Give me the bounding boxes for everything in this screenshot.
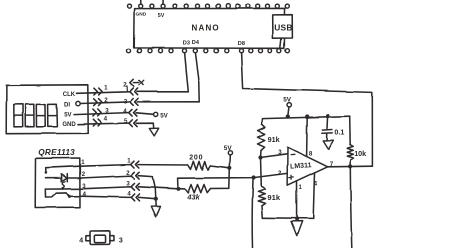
- wire output down off-page: [350, 166, 352, 248]
- 4-digit 7-segment display module box: [6, 85, 88, 134]
- QRE1113 box: [35, 158, 80, 208]
- wire GND pin up off-page: [140, 0, 142, 4]
- svg-text:10k: 10k: [354, 149, 366, 158]
- wire row1 to R 200: [138, 164, 188, 166]
- LM311 triangle U1: [287, 147, 328, 186]
- light arrow head: [62, 187, 65, 190]
- svg-text:4: 4: [314, 180, 318, 187]
- capacitor C1 0.1 top lead: [327, 116, 330, 128]
- connector plug pin3 chevrons: [93, 109, 96, 116]
- wire collector node to LM311 + input: [178, 173, 287, 188]
- svg-text:5V: 5V: [158, 13, 165, 19]
- junction dot collector node: [176, 187, 180, 191]
- socket chevrons row3: [131, 183, 134, 190]
- junction dot 10k/output: [348, 164, 352, 168]
- resistor R5 10k: [349, 116, 352, 144]
- capacitor bottom lead: [326, 133, 328, 140]
- display digit 2: [25, 104, 34, 127]
- junction dot row4/gnd: [154, 197, 158, 201]
- pin 4 emitter wire: [69, 195, 79, 197]
- ground symbol (sensor): [151, 206, 160, 217]
- svg-text:5V: 5V: [224, 145, 233, 152]
- socket chevrons CLK row: [130, 88, 133, 95]
- rail junction dots: [286, 114, 290, 118]
- socket chevrons GND row: [129, 120, 132, 127]
- svg-text:2: 2: [123, 81, 127, 88]
- wire D3 to CLK row: [185, 53, 189, 92]
- anode tick dot: [45, 172, 48, 175]
- X no-connect mark: [139, 81, 144, 86]
- wire row2 bend down to ground: [138, 176, 156, 206]
- svg-text:D8: D8: [238, 41, 245, 47]
- pin 1 anode wire: [46, 166, 80, 173]
- LED D1: [62, 174, 68, 182]
- wire 5V row: [74, 113, 129, 115]
- wire 5V circle to junction: [229, 155, 231, 166]
- ground symbol (comparator): [291, 221, 302, 236]
- wire 5V circle to rail: [288, 107, 289, 116]
- USB connector box: [273, 15, 293, 39]
- svg-text:QRE1113: QRE1113: [38, 148, 75, 157]
- pin 1 wire: [296, 181, 298, 219]
- NANO bottom pin header: [127, 49, 131, 53]
- wire row4 to gnd dot: [139, 197, 156, 198]
- svg-text:3: 3: [119, 237, 123, 244]
- 5V supply circle (sensor): [228, 151, 232, 155]
- DIO pin circle: [76, 101, 80, 105]
- plus sign: [289, 175, 293, 179]
- pin 8 wire: [306, 117, 309, 157]
- svg-text:0.1: 0.1: [334, 128, 344, 137]
- socket chevrons row4: [131, 194, 134, 201]
- connector plug pin4 chevrons: [93, 119, 96, 126]
- svg-text:USB: USB: [274, 22, 292, 32]
- svg-text:GND: GND: [136, 12, 147, 18]
- svg-text:200: 200: [189, 154, 203, 161]
- resistor R2 43k: [178, 188, 185, 190]
- junction dot + input: [252, 175, 256, 179]
- svg-text:91k: 91k: [268, 135, 280, 144]
- svg-text:7: 7: [330, 161, 334, 168]
- connector plug pin2 chevrons: [94, 99, 97, 106]
- wire D8 loop to comparator output: [241, 53, 372, 167]
- NANO top pin header: [128, 4, 132, 8]
- svg-text:D4: D4: [192, 40, 200, 46]
- svg-text:4: 4: [123, 108, 127, 115]
- resistor R1 200: [188, 161, 211, 170]
- svg-text:2: 2: [104, 97, 108, 104]
- package left tab: [85, 236, 89, 241]
- socket chevrons row1: [131, 161, 134, 168]
- junction dot ground rail: [295, 217, 299, 221]
- wire sensor row 3 (collector): [80, 187, 131, 189]
- pin 7 output wire: [328, 165, 373, 168]
- package body: [90, 231, 110, 245]
- wire to ground: [136, 123, 153, 128]
- 5V supply circle: [154, 112, 158, 116]
- svg-text:CLK: CLK: [63, 92, 76, 98]
- phototransistor Q1 collector line / pin 3: [45, 188, 80, 190]
- display digit 3: [36, 104, 45, 127]
- svg-text:4: 4: [79, 237, 83, 244]
- minus sign: [291, 153, 295, 155]
- phototransistor body bar: [56, 192, 66, 194]
- package inner window: [94, 235, 106, 243]
- 5V rail: [263, 116, 350, 118]
- wire to 5V node: [136, 113, 153, 115]
- connector plug pin1 chevrons: [94, 88, 97, 95]
- wire CLK row: [77, 92, 130, 94]
- junction dot 200/5V: [228, 166, 232, 170]
- svg-text:5V: 5V: [64, 113, 71, 119]
- ground rail: [263, 217, 313, 220]
- junction dot divider/pin3: [258, 155, 262, 159]
- phototransistor emitter w/ arrow: [67, 193, 70, 196]
- divider chain crossing pin2 line: [260, 158, 263, 187]
- LED anode lead: [46, 177, 62, 179]
- wire sensor row 1: [80, 165, 131, 167]
- wire 43k to 5V junction: [211, 168, 230, 189]
- svg-text:NANO: NANO: [192, 24, 220, 33]
- light arrow squiggle: [63, 182, 65, 188]
- display digit 4: [48, 104, 58, 127]
- wire DIO row: [80, 102, 129, 104]
- svg-text:8: 8: [309, 151, 313, 158]
- svg-text:DI: DI: [64, 102, 70, 108]
- svg-text:4: 4: [104, 115, 108, 122]
- svg-text:LM311: LM311: [290, 162, 312, 170]
- wire + node down off-page: [251, 180, 254, 248]
- ground symbol (capacitor): [323, 141, 333, 150]
- stub tail to CLK wire: [126, 86, 128, 91]
- resistor R4 91k lower: [258, 187, 266, 206]
- wire CLK to D3: [137, 91, 188, 93]
- pin 4 wire: [313, 173, 314, 219]
- svg-text:3: 3: [105, 108, 109, 115]
- svg-text:91k: 91k: [267, 193, 280, 202]
- socket chevrons DIO row: [130, 99, 133, 106]
- svg-text:3: 3: [124, 99, 128, 106]
- svg-text:5: 5: [124, 118, 128, 125]
- wire divider to pin 3: [261, 154, 287, 158]
- wire row3 to 43k node: [139, 187, 178, 189]
- wire to ground symbol: [296, 219, 298, 221]
- wire sensor row 2 to ground: [80, 176, 131, 178]
- capacitor C1 plates: [322, 130, 332, 134]
- phototransistor left bracket: [45, 189, 56, 197]
- svg-text:3: 3: [278, 149, 282, 156]
- LED cathode lead / pin 2: [67, 177, 80, 179]
- socket chevrons row2: [131, 172, 134, 179]
- wire sensor row 4 (emitter): [80, 196, 131, 197]
- svg-text:1: 1: [104, 85, 108, 92]
- svg-text:43k: 43k: [186, 193, 200, 202]
- package right tab: [110, 236, 114, 241]
- 5V supply circle (comparator): [287, 103, 291, 107]
- wire D4 to DIO row: [195, 53, 199, 102]
- resistor R3 91k upper: [261, 119, 262, 124]
- svg-text:D3: D3: [183, 40, 190, 46]
- wire 5V pin up off-page: [162, 0, 164, 4]
- display digit 1: [14, 104, 23, 127]
- svg-text:5V: 5V: [283, 96, 292, 103]
- ground symbol (display): [149, 128, 158, 136]
- socket chevrons 5V row: [129, 109, 132, 116]
- wire USB to bottom pin row: [280, 38, 281, 48]
- wire DIO to D4: [137, 101, 199, 103]
- wire GND row: [78, 123, 129, 124]
- wire R200 to 5V junction: [210, 166, 230, 168]
- svg-text:GND: GND: [62, 122, 76, 128]
- Arduino NANO board outline: [134, 7, 287, 48]
- svg-text:2: 2: [278, 170, 282, 177]
- svg-text:5V: 5V: [160, 113, 168, 120]
